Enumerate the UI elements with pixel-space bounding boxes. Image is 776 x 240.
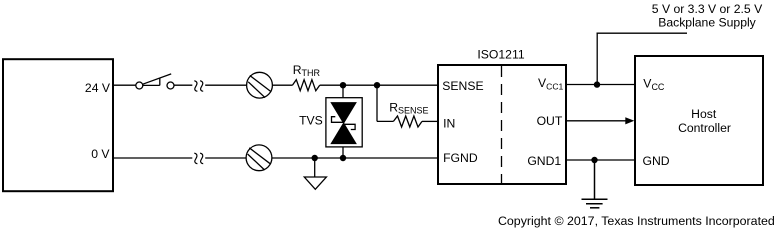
resistor RSENSE [389, 100, 428, 127]
svg-text:OUT: OUT [537, 114, 563, 128]
svg-text:SENSE: SENSE [442, 79, 483, 93]
svg-text:24 V: 24 V [85, 81, 111, 95]
switch S1 [136, 74, 174, 89]
wire OUT to host [566, 117, 634, 124]
wire to RSENSE [377, 120, 393, 122]
wire backplane supply vertical [596, 33, 598, 84]
svg-text:0 V: 0 V [91, 147, 110, 161]
field terminal (24V rail) [247, 72, 273, 98]
wire TVS top stub [342, 85, 344, 98]
TVS diode D1 [326, 98, 362, 147]
label backplane supply [652, 2, 763, 30]
svg-text:5 V or 3.3 V or 2.5 V: 5 V or 3.3 V or 2.5 V [652, 2, 763, 16]
svg-text:Copyright © 2017, Texas Instru: Copyright © 2017, Texas Instruments Inco… [498, 214, 775, 228]
wire RTHR to SENSE pin [320, 84, 438, 86]
svg-text:TVS: TVS [299, 114, 323, 128]
field terminal (0V rail) [246, 145, 272, 171]
svg-text:Backplane Supply: Backplane Supply [658, 16, 756, 30]
svg-text:ISO1211: ISO1211 [477, 48, 524, 62]
svg-text:IN: IN [443, 116, 455, 130]
chassis ground [304, 158, 326, 189]
wire break to terminal (0V) [205, 157, 246, 159]
wire terminal to RTHR [272, 84, 292, 86]
wire 24V rail from box to switch [113, 84, 136, 86]
earth ground [582, 160, 608, 208]
wire RSENSE branch vertical [376, 85, 378, 121]
IC ISO1211 U1 [438, 65, 566, 184]
svg-text:Controller: Controller [678, 121, 731, 135]
junction node at chassis ground [312, 155, 318, 161]
wire TVS bottom stub [342, 147, 344, 158]
junction node at TVS top [340, 82, 346, 88]
svg-text:GND: GND [643, 154, 670, 168]
svg-text:GND1: GND1 [527, 154, 561, 168]
wire GND1 to host GND [566, 159, 635, 161]
wire VCC1 to host VCC [566, 84, 635, 86]
wire switch to break [174, 84, 192, 86]
wire terminal to FGND pin [272, 157, 438, 159]
svg-text:Host: Host [691, 107, 717, 121]
wire-break symbol (24V rail) [194, 81, 203, 92]
wire-break symbol (0V rail) [194, 153, 203, 164]
resistor RTHR [292, 63, 320, 91]
host controller box [635, 56, 763, 185]
24V field supply box [3, 59, 113, 191]
junction node at TVS bottom [340, 155, 346, 161]
svg-text:FGND: FGND [443, 151, 478, 165]
wire RSENSE to IN pin [422, 120, 438, 122]
junction node at RSENSE branch [374, 82, 380, 88]
junction node at earth ground [591, 157, 597, 163]
0V rail wire from box to break [113, 157, 192, 159]
label Host Controller [678, 107, 731, 135]
wire backplane supply horizontal [597, 32, 688, 34]
junction node backplane supply [594, 81, 600, 87]
wire break to terminal [205, 84, 246, 86]
